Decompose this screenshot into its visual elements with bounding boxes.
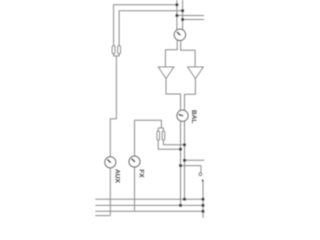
svg-text:FX: FX xyxy=(138,169,145,178)
svg-text:BAL: BAL xyxy=(190,110,197,124)
svg-text:AUX: AUX xyxy=(114,169,121,184)
